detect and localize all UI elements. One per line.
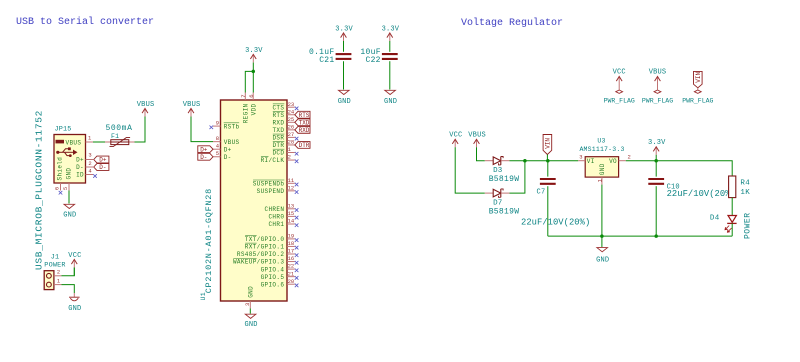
svg-text:4: 4 [88, 167, 92, 174]
svg-text:1: 1 [597, 178, 604, 182]
wire 3.3V to C21 [343, 41, 345, 52]
no-connect X on pin 16 [295, 261, 299, 265]
svg-text:15: 15 [288, 210, 295, 217]
wire 3.3V to REGIN/VDD [245, 71, 253, 92]
power symbol 3.3V above U1 [250, 54, 256, 62]
J1 pin 1 circle [47, 282, 52, 287]
svg-text:14: 14 [288, 218, 295, 225]
svg-text:USB_MICROB_PLUGCONN-11752: USB_MICROB_PLUGCONN-11752 [33, 110, 44, 270]
svg-text:F1: F1 [111, 133, 119, 140]
wire JP15 VBUS pin to fuse F1 [93, 141, 105, 143]
wire U1 GND to ground [249, 309, 251, 314]
wire U3 VO to 3.3V node [626, 160, 656, 162]
svg-text:2: 2 [288, 154, 291, 161]
svg-text:D+: D+ [99, 157, 107, 164]
USB plug icon inside JP15 [56, 140, 78, 157]
svg-text:CTS: CTS [272, 104, 284, 111]
svg-text:RSTb: RSTb [224, 123, 240, 130]
wire VBUS down to D3 [477, 147, 485, 160]
ground symbol below U1 [245, 314, 256, 318]
U1 left pin names [224, 123, 240, 161]
svg-text:GND: GND [66, 168, 73, 180]
U1 pin 6 VDD stub [252, 93, 254, 101]
ground symbol below rail [597, 248, 608, 252]
svg-text:GND: GND [63, 212, 76, 220]
svg-text:DTR: DTR [299, 142, 310, 149]
no-connect X on pin 11 [295, 183, 299, 187]
svg-text:2: 2 [57, 269, 60, 276]
wire 3.3V node to R4 [656, 161, 732, 176]
junction U3 GND at rail [600, 234, 604, 238]
svg-text:VIN: VIN [545, 138, 552, 149]
U1 pin 18 RXT/GPIO.1 [245, 240, 295, 251]
wire D3 to VIN node [510, 160, 549, 162]
J1 pin 2 stub [54, 275, 62, 277]
global label RTS [295, 111, 310, 118]
svg-text:19: 19 [288, 233, 295, 240]
global label VIN (power flag) [694, 71, 703, 87]
svg-text:GPIO.6: GPIO.6 [261, 281, 285, 288]
svg-text:3.3V: 3.3V [335, 25, 353, 33]
no-connect X on pin 23 [295, 107, 299, 111]
svg-text:SUSPENDb: SUSPENDb [253, 180, 285, 187]
U1 pin 28 DTR [272, 139, 294, 150]
J1 pin 2 circle [47, 273, 52, 278]
power ground GNDPWR symbol at J1 [69, 293, 80, 301]
svg-text:D3: D3 [493, 167, 503, 175]
wire C22 to GND [389, 61, 391, 89]
svg-text:R4: R4 [740, 179, 750, 187]
svg-text:D7: D7 [493, 199, 502, 207]
wire 3.3V to C22 [389, 41, 391, 52]
junction at C10 [654, 159, 658, 163]
no-connect X on pin 2 [295, 159, 299, 163]
svg-text:JP15: JP15 [54, 126, 71, 134]
no-connect X on pin 12 [295, 190, 299, 194]
svg-text:D-: D- [76, 164, 84, 171]
svg-text:RXD: RXD [272, 119, 284, 126]
global label RXD [295, 126, 310, 133]
ground symbol below C22 [385, 90, 396, 94]
power symbol VBUS at fuse [142, 109, 148, 117]
svg-text:WAKEUP/GPIO.3: WAKEUP/GPIO.3 [233, 259, 284, 266]
svg-text:16: 16 [288, 255, 295, 262]
U1 pin 19 TXT/GPIO.0 [245, 233, 295, 244]
IC U1 CP2102N body [221, 100, 288, 301]
svg-text:REGIN: REGIN [243, 103, 250, 123]
svg-text:J1: J1 [51, 254, 60, 262]
svg-text:PWR_FLAG: PWR_FLAG [604, 97, 635, 104]
svg-text:U3: U3 [597, 137, 605, 144]
JP15 pin 3 D+ stub [86, 159, 94, 161]
U1 pin 12 SUSPEND [257, 184, 295, 195]
svg-text:CHREN: CHREN [265, 206, 285, 213]
no-connect X on pin 22 [295, 269, 299, 273]
junction diodes OR node [523, 159, 527, 163]
svg-text:D-: D- [99, 164, 106, 171]
svg-text:ID: ID [76, 172, 84, 179]
U1 pin 22 GPIO.4 [261, 263, 295, 274]
capacitor C22 10uF [382, 54, 398, 59]
U3 pin 1 GND [601, 177, 603, 185]
power symbol VBUS at U1 [188, 109, 194, 117]
svg-text:D-: D- [224, 154, 232, 161]
global label DTR [295, 142, 310, 149]
no-connect X on pin 19 [295, 238, 299, 242]
svg-text:VDD: VDD [250, 103, 257, 115]
U1 pin 27 DSR [272, 131, 294, 142]
capacitor C10 [655, 161, 657, 177]
svg-text:TXD: TXD [272, 127, 284, 134]
svg-text:GND: GND [244, 321, 257, 329]
svg-text:2: 2 [628, 154, 631, 161]
no-connect X on pin 18 [295, 246, 299, 250]
svg-text:25: 25 [288, 116, 295, 123]
svg-text:27: 27 [288, 131, 295, 138]
svg-text:CHR1: CHR1 [268, 221, 284, 228]
svg-text:AMS1117-3.3: AMS1117-3.3 [579, 146, 624, 153]
no-connect X on RSTb [210, 126, 214, 130]
USB connector JP15 body [54, 135, 86, 184]
U1 pin 9 RSTb stub [213, 125, 221, 127]
diode D3 B5819W [485, 160, 494, 162]
global label TXD [295, 119, 310, 126]
svg-text:USB to Serial converter: USB to Serial converter [16, 16, 154, 28]
wire D4 to bottom rail [731, 223, 733, 236]
svg-text:23: 23 [288, 101, 295, 108]
svg-text:24: 24 [288, 108, 295, 115]
U1 pin 11 SUSPENDb [253, 177, 295, 188]
U1 pin 21 GPIO.5 [261, 270, 295, 281]
svg-text:9: 9 [216, 119, 219, 126]
svg-text:RXD: RXD [299, 127, 310, 134]
U1 pin 15 CHR0 [268, 210, 294, 221]
svg-text:VO: VO [609, 158, 617, 165]
svg-text:Shield: Shield [57, 157, 64, 181]
svg-text:22uF/10V(20%): 22uF/10V(20%) [521, 217, 590, 227]
svg-text:2: 2 [88, 160, 91, 167]
svg-text:VBUS: VBUS [183, 101, 201, 109]
svg-text:VIN: VIN [695, 71, 702, 82]
power symbol VCC (regulator input) [452, 139, 458, 147]
svg-text:D4: D4 [710, 215, 720, 223]
svg-text:C7: C7 [536, 189, 545, 197]
svg-text:GPIO.5: GPIO.5 [261, 274, 285, 281]
junction at C7 [546, 159, 550, 163]
global label D- (USB side) [94, 164, 109, 171]
wire fuse to VBUS power [135, 125, 146, 143]
svg-text:RXT/GPIO.1: RXT/GPIO.1 [245, 244, 285, 251]
svg-text:GND: GND [68, 305, 81, 313]
U3 pin 2 VO [619, 160, 626, 162]
svg-text:26: 26 [288, 123, 295, 130]
svg-text:5: 5 [62, 187, 69, 190]
U1 pin 14 CHR1 [268, 218, 294, 229]
svg-text:POWER: POWER [743, 212, 752, 239]
svg-text:6: 6 [248, 94, 255, 97]
JP15 pin 1 VBUS stub [86, 141, 94, 143]
svg-text:6: 6 [53, 187, 60, 190]
svg-text:D-: D- [200, 154, 207, 161]
JP15 pin 6 Shield stub [60, 183, 62, 191]
U1 pin 4 D+ stub [213, 148, 221, 150]
JP15 pin 5 GND stub [68, 183, 70, 191]
svg-text:TXD: TXD [299, 120, 310, 127]
no-connect X on JP15 ID pin [93, 174, 97, 178]
wire VCC down to D7 [455, 147, 485, 193]
no-connect X on pin 17 [295, 253, 299, 257]
svg-text:12: 12 [288, 184, 295, 191]
svg-text:DTR: DTR [272, 142, 284, 149]
no-connect X on pin 15 [295, 216, 299, 220]
svg-text:GND: GND [338, 98, 351, 106]
svg-text:TXT/GPIO.0: TXT/GPIO.0 [245, 236, 285, 243]
svg-text:CHR0: CHR0 [268, 214, 284, 221]
svg-text:VBUS: VBUS [66, 140, 82, 147]
no-connect X on pin 21 [295, 276, 299, 280]
ground symbol below JP15 [64, 204, 75, 208]
wire C7 to bottom rail [547, 186, 549, 236]
svg-text:B5819W: B5819W [489, 175, 520, 184]
svg-text:3.3V: 3.3V [382, 25, 400, 33]
global label D+ (USB side) [94, 156, 109, 163]
svg-text:VBUS: VBUS [468, 132, 486, 140]
svg-text:3: 3 [579, 154, 582, 161]
power symbol 3.3V at C22 [387, 33, 393, 41]
svg-text:C21: C21 [319, 56, 334, 65]
svg-text:VCC: VCC [613, 69, 626, 77]
svg-text:8: 8 [216, 135, 219, 142]
no-connect X on pin 27 [295, 137, 299, 141]
svg-text:DCD: DCD [272, 150, 284, 157]
U1 pin 5 D- stub [213, 156, 221, 158]
power flag VBUS [654, 77, 661, 94]
capacitor C21 0.1uF [336, 54, 352, 59]
connector J1 body [44, 271, 54, 290]
U1 pin 8 VBUS stub [213, 141, 221, 143]
svg-text:B5819W: B5819W [489, 207, 520, 216]
wire C21 to GND [343, 61, 345, 89]
svg-text:1K: 1K [740, 189, 750, 197]
svg-text:RI/CLK: RI/CLK [261, 157, 285, 164]
svg-text:VBUS: VBUS [224, 139, 240, 146]
LED D4 [725, 216, 737, 233]
U1 pin 24 RTS [272, 108, 294, 119]
wire D7 up to main rail [510, 161, 525, 193]
diode D7 B5819W [485, 192, 494, 194]
svg-text:VCC: VCC [449, 132, 462, 140]
wire VBUS power to U1 pin 8 [191, 117, 213, 142]
svg-text:500mA: 500mA [105, 124, 132, 133]
svg-text:3.3V: 3.3V [648, 139, 666, 147]
wire R4 to LED D4 [731, 198, 733, 216]
svg-text:PWR_FLAG: PWR_FLAG [682, 97, 713, 104]
svg-text:C22: C22 [365, 56, 380, 65]
fuse F1 [105, 138, 135, 147]
svg-text:22uF/10V(20%): 22uF/10V(20%) [667, 189, 736, 199]
svg-text:D+: D+ [200, 146, 208, 153]
svg-text:21: 21 [288, 270, 295, 277]
svg-text:5: 5 [216, 150, 219, 157]
svg-text:VBUS: VBUS [137, 101, 155, 109]
U1 pin 1 DCD [272, 146, 294, 157]
svg-text:4: 4 [216, 142, 220, 149]
svg-text:GND: GND [384, 98, 397, 106]
J1 pin 1 stub [54, 284, 62, 286]
svg-text:D+: D+ [76, 157, 84, 164]
no-connect X on pin 1 [295, 152, 299, 156]
resistor R4 1K [729, 176, 736, 198]
svg-text:CP2102N-A01-GQFN28: CP2102N-A01-GQFN28 [204, 188, 214, 293]
svg-text:RS485/GPIO.2: RS485/GPIO.2 [237, 251, 284, 258]
svg-text:VI: VI [587, 158, 595, 165]
svg-text:DSR: DSR [272, 135, 284, 142]
svg-text:GND: GND [599, 163, 606, 175]
power symbol VBUS (regulator input) [474, 139, 480, 147]
junction at VDD feed [252, 70, 256, 74]
U3 pin 3 VI [578, 160, 585, 162]
wire U3 GND to bottom rail [601, 185, 603, 237]
regulator U3 AMS1117-3.3 body [585, 157, 618, 177]
U1 pin 26 TXD [272, 123, 294, 134]
no-connect X on pin 20 [295, 284, 299, 288]
wire JP15 GND pin down to ground [68, 191, 70, 204]
U1 pin 17 RS485/GPIO.2 [237, 248, 295, 259]
svg-text:GND: GND [247, 286, 254, 298]
wire J1 pin1 to GND [62, 285, 75, 293]
svg-text:28: 28 [288, 139, 295, 146]
U1 pin 2 RI/CLK [261, 154, 295, 165]
svg-text:VCC: VCC [68, 252, 81, 260]
wire VIN node to U3 [548, 160, 578, 162]
svg-text:SUSPEND: SUSPEND [257, 188, 285, 195]
svg-text:1: 1 [88, 135, 92, 142]
U1 pin 23 CTS [272, 101, 294, 112]
no-connect X on pin 14 [295, 223, 299, 227]
svg-text:3: 3 [88, 152, 91, 159]
svg-text:GPIO.4: GPIO.4 [261, 266, 285, 273]
wire C10 to bottom rail [655, 186, 657, 236]
bottom ground rail [548, 235, 732, 237]
svg-text:22: 22 [288, 263, 295, 270]
wire J1 pin2 to VCC [62, 268, 75, 276]
global label D- at U1 [198, 153, 213, 160]
U1 pin 13 CHREN [265, 202, 295, 213]
U1 pin 3 GND stub [249, 301, 251, 309]
svg-text:11: 11 [288, 177, 295, 184]
power symbol VCC at J1 [71, 260, 77, 268]
svg-text:VBUS: VBUS [649, 69, 667, 77]
junction C10 at rail [654, 234, 658, 238]
svg-text:GND: GND [596, 256, 609, 264]
svg-text:1: 1 [57, 277, 61, 284]
no-connect X on pin 13 [295, 208, 299, 212]
JP15 pin 4 ID stub [86, 174, 94, 176]
svg-text:18: 18 [288, 240, 295, 247]
power symbol 3.3V at regulator output [653, 147, 659, 155]
svg-text:RTS: RTS [299, 112, 310, 119]
svg-text:POWER: POWER [44, 262, 65, 270]
ground symbol below C21 [339, 90, 350, 94]
power symbol 3.3V at C21 [341, 33, 347, 41]
svg-text:3.3V: 3.3V [245, 47, 263, 55]
svg-text:13: 13 [288, 202, 295, 209]
wire rail to ground symbol [601, 236, 603, 247]
global label D+ at U1 [198, 146, 213, 153]
svg-text:Voltage Regulator: Voltage Regulator [461, 17, 563, 29]
svg-text:PWR_FLAG: PWR_FLAG [642, 97, 673, 104]
U1 pin 25 RXD [272, 116, 294, 127]
power flag VCC [616, 77, 623, 94]
svg-text:RTS: RTS [272, 112, 284, 119]
U1 pin 16 WAKEUP/GPIO.3 [233, 255, 295, 266]
svg-text:17: 17 [288, 248, 295, 255]
JP15 pin 2 D- stub [86, 166, 94, 168]
svg-text:7: 7 [240, 94, 247, 97]
svg-text:D+: D+ [224, 146, 232, 153]
global label VIN on rail [543, 135, 552, 155]
U1 pin 7 REGIN stub [244, 93, 246, 101]
svg-text:20: 20 [288, 278, 295, 285]
U1 pin 20 GPIO.6 [261, 278, 295, 289]
capacitor C7 [547, 161, 549, 177]
svg-text:3: 3 [244, 303, 251, 306]
no-connect X on JP15 Shield pin [59, 191, 63, 195]
